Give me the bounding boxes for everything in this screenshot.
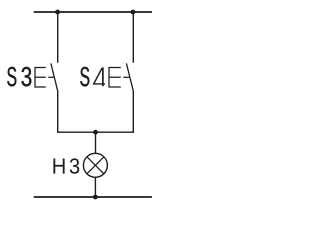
wire: bottom supply rail: [34, 196, 152, 198]
lamp H3 cross stroke 2: [87, 157, 104, 174]
wire: lamp top lead: [95, 132, 97, 154]
node: junction on middle rail: [93, 130, 98, 135]
switch S3 contact blade: [51, 63, 58, 91]
node: junction of S4 branch on top rail: [131, 10, 136, 15]
node: junction on bottom rail: [93, 195, 98, 200]
label H3: [53, 158, 79, 173]
switch S4 push-button actuator: [109, 68, 121, 88]
switch S3 actuator link dash: [48, 76, 54, 78]
wire: S4 top terminal: [132, 12, 134, 63]
switch S3 push-button actuator: [35, 68, 46, 88]
wire: lamp bottom lead: [94, 177, 96, 197]
lamp H3 body: [83, 153, 107, 177]
wire: middle joining rail: [57, 131, 134, 133]
wire: S3 top terminal: [57, 12, 59, 63]
lamp H3 cross stroke 1: [87, 157, 104, 174]
switch S4 actuator link dash: [123, 76, 129, 78]
switch S4 contact blade: [126, 63, 133, 91]
label S4: [80, 67, 105, 87]
wire: top supply rail: [34, 11, 152, 13]
node: junction of S3 branch on top rail: [55, 10, 60, 15]
wire: S4 bottom terminal: [132, 91, 134, 132]
wire: S3 bottom terminal: [57, 91, 59, 132]
label S3: [7, 67, 31, 87]
